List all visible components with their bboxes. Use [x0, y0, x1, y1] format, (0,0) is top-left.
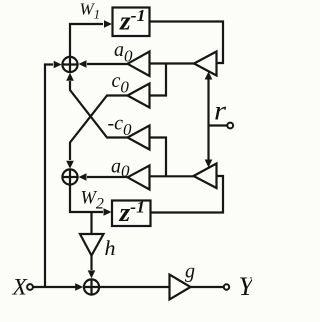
wire: summer S3 output to amplifier g	[99, 286, 169, 288]
wire: feedback from input node up into summer S1 left	[45, 65, 53, 288]
wire: h output down into summer S3 top	[90, 256, 92, 271]
svg-text:h: h	[105, 236, 116, 260]
wire: branch down to amplifier h	[90, 212, 92, 234]
summer S3	[84, 279, 99, 294]
wire: amplifier r top output to a0 top input	[150, 62, 194, 64]
wire: r node stub	[209, 124, 228, 126]
delay Z1 box	[113, 8, 150, 37]
svg-text:Y: Y	[239, 271, 253, 301]
amplifier a0 bottom (left-pointing triangle)	[128, 166, 150, 190]
amplifier h (down-pointing triangle)	[80, 234, 104, 256]
amplifier c0 (left-pointing triangle)	[128, 84, 150, 108]
svg-text:c0: c0	[112, 70, 130, 96]
node r terminal circle	[227, 123, 233, 129]
delay Z2 box	[112, 201, 151, 227]
wire arrowhead into S2 top	[66, 161, 74, 169]
svg-text:-c0: -c0	[108, 113, 133, 139]
amplifier -c0 (left-pointing triangle)	[128, 126, 150, 150]
node X input terminal	[27, 284, 33, 290]
wire: amplifier g output to node Y	[191, 286, 224, 288]
svg-text:a0: a0	[111, 156, 130, 181]
wire: -c0 output diagonal up into summer S1 bottom	[70, 81, 128, 138]
wire arrowhead into S1 right	[79, 60, 87, 68]
svg-text:a0: a0	[114, 39, 133, 66]
summer S1	[62, 57, 77, 72]
svg-text:r: r	[214, 96, 227, 126]
r control line (double-headed vertical arrow)	[205, 72, 213, 168]
wire: c0 output diagonal down into summer S2 top	[70, 96, 128, 161]
wire: branch down to c0 input	[150, 64, 166, 96]
svg-text:W2: W2	[81, 189, 104, 213]
wire: amplifier r bottom output to a0 bottom input	[150, 175, 194, 177]
svg-text:g: g	[185, 261, 195, 283]
node Y output terminal	[224, 284, 229, 289]
wire: X input to summer S3 left	[33, 286, 76, 288]
svg-text:z-1: z-1	[118, 198, 145, 228]
svg-text:X: X	[12, 275, 29, 301]
summer S2	[62, 169, 77, 184]
wire W2: summer S2 output down and right into delay Z2	[70, 184, 103, 212]
amplifier g (right-pointing triangle)	[170, 275, 191, 300]
wire: a0 bottom output into summer S2 right	[87, 176, 128, 178]
amplifier a0 top (left-pointing triangle)	[128, 52, 150, 77]
wire arrowhead into Z2	[104, 208, 112, 216]
wire arrowhead into S1 bottom	[66, 73, 74, 81]
wire: branch up to -c0 input	[150, 138, 166, 177]
wire arrowhead into S1 left	[54, 61, 62, 69]
wire arrowhead into Z1	[104, 20, 112, 28]
wire: a0 top output into summer S1	[87, 63, 128, 65]
wire W1: summer S1 output up and right to delay Z1	[70, 24, 103, 57]
amplifier r bottom (left-pointing triangle)	[194, 164, 217, 189]
amplifier r top (left-pointing triangle)	[194, 52, 217, 76]
wire: delay Z2 output right and up to amplifier r bottom	[151, 176, 224, 213]
svg-text:z-1: z-1	[119, 6, 146, 36]
wire arrowhead into S3 left	[75, 283, 83, 291]
svg-text:W1: W1	[80, 0, 101, 22]
wire: Z1 output right and down to amplifier r top	[150, 22, 224, 64]
wire arrowhead into S2 right	[79, 173, 87, 181]
wire arrowhead into S3 top	[88, 270, 96, 278]
